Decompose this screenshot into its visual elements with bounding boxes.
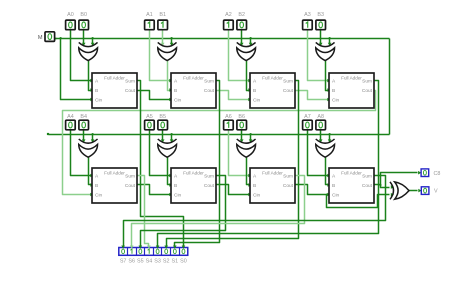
- svg-text:S6: S6: [128, 258, 135, 264]
- svg-text:B: B: [174, 88, 177, 94]
- svg-text:C8: C8: [434, 171, 441, 177]
- svg-text:A5: A5: [146, 114, 153, 120]
- svg-text:Sum: Sum: [204, 79, 214, 85]
- svg-text:S0: S0: [180, 258, 187, 264]
- svg-text:Cin: Cin: [332, 98, 340, 104]
- svg-text:Sum: Sum: [125, 79, 135, 85]
- svg-text:S2: S2: [163, 258, 170, 264]
- svg-text:Sum: Sum: [125, 174, 135, 180]
- svg-text:A0: A0: [67, 12, 74, 18]
- svg-text:Cin: Cin: [253, 98, 261, 104]
- svg-text:Cin: Cin: [174, 193, 182, 199]
- svg-text:Cin: Cin: [95, 193, 103, 199]
- svg-text:Full Adder: Full Adder: [262, 170, 283, 175]
- svg-text:Cout: Cout: [125, 183, 136, 189]
- svg-text:Cin: Cin: [332, 193, 340, 199]
- svg-text:Full Adder: Full Adder: [341, 170, 362, 175]
- svg-text:A6: A6: [225, 114, 232, 120]
- svg-text:Cin: Cin: [174, 98, 182, 104]
- svg-text:Cout: Cout: [125, 88, 136, 94]
- svg-text:B4: B4: [80, 114, 87, 120]
- svg-text:B2: B2: [238, 12, 245, 18]
- svg-text:A4: A4: [67, 114, 74, 120]
- svg-text:B: B: [253, 183, 256, 189]
- svg-text:B1: B1: [159, 12, 166, 18]
- svg-text:Cout: Cout: [283, 183, 294, 189]
- svg-text:S5: S5: [137, 258, 144, 264]
- svg-text:Cout: Cout: [362, 183, 373, 189]
- svg-text:B: B: [95, 183, 98, 189]
- svg-text:Cin: Cin: [253, 193, 261, 199]
- svg-text:B0: B0: [80, 12, 87, 18]
- svg-text:B: B: [332, 183, 335, 189]
- svg-text:A7: A7: [304, 114, 311, 120]
- svg-text:Cout: Cout: [204, 183, 215, 189]
- svg-text:Sum: Sum: [283, 174, 293, 180]
- svg-text:S1: S1: [172, 258, 179, 264]
- svg-text:Full Adder: Full Adder: [341, 75, 362, 80]
- svg-text:M: M: [38, 35, 43, 41]
- svg-text:B6: B6: [238, 114, 245, 120]
- svg-text:B: B: [174, 183, 177, 189]
- svg-text:Cout: Cout: [283, 88, 294, 94]
- svg-text:Sum: Sum: [283, 79, 293, 85]
- svg-text:Cout: Cout: [204, 88, 215, 94]
- svg-text:S3: S3: [154, 258, 161, 264]
- svg-text:Full Adder: Full Adder: [183, 170, 204, 175]
- svg-text:Cout: Cout: [362, 88, 373, 94]
- svg-text:A2: A2: [225, 12, 232, 18]
- svg-text:Full Adder: Full Adder: [183, 75, 204, 80]
- svg-text:A1: A1: [146, 12, 153, 18]
- svg-text:S7: S7: [120, 258, 127, 264]
- svg-text:Full Adder: Full Adder: [104, 75, 125, 80]
- svg-text:B: B: [332, 88, 335, 94]
- svg-text:S4: S4: [146, 258, 153, 264]
- svg-text:Full Adder: Full Adder: [262, 75, 283, 80]
- svg-text:B3: B3: [317, 12, 324, 18]
- svg-text:Sum: Sum: [362, 79, 372, 85]
- svg-text:Cin: Cin: [95, 98, 103, 104]
- svg-text:B: B: [253, 88, 256, 94]
- svg-text:A3: A3: [304, 12, 311, 18]
- svg-text:Sum: Sum: [362, 174, 372, 180]
- svg-text:Full Adder: Full Adder: [104, 170, 125, 175]
- svg-text:A8: A8: [317, 114, 324, 120]
- svg-text:V: V: [434, 189, 438, 195]
- svg-text:Sum: Sum: [204, 174, 214, 180]
- svg-text:B5: B5: [159, 114, 166, 120]
- svg-text:B: B: [95, 88, 98, 94]
